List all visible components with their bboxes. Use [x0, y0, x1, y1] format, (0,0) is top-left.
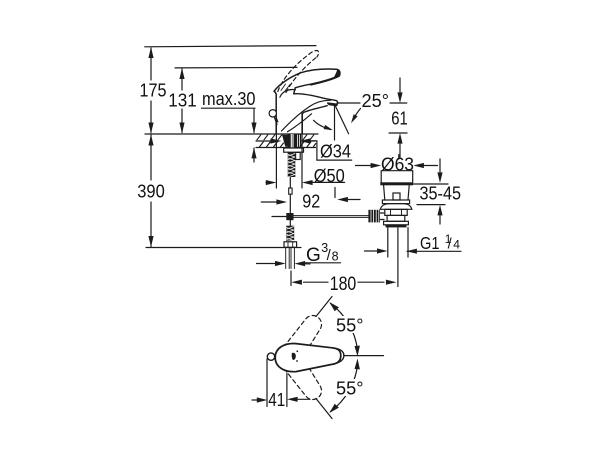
max.30 arrow down to deck [251, 123, 256, 134]
plan view: pull-rod circle [267, 353, 274, 360]
body swoosh curve 2 [288, 114, 312, 132]
25 degree arc arrow left [314, 120, 331, 129]
drain narrow section [387, 215, 405, 221]
svg-text:131: 131 [168, 89, 197, 110]
spout top edge [294, 94, 338, 104]
lever grip shading strokes [281, 84, 290, 91]
rod coupler [289, 188, 292, 194]
plan view: lever end cap outer arc [332, 348, 344, 365]
label Ø34 with leader [305, 141, 352, 160]
label 55 upper [334, 314, 365, 335]
dashed raised lever outer edge [278, 54, 309, 91]
dimension 180 line with arrows [304, 281, 385, 283]
hose connection nut [284, 242, 297, 248]
plan view: dashed lever rotated up 55 [274, 311, 327, 373]
Ø63 dimension left arrow [356, 165, 372, 167]
plan view: solid lever [275, 344, 341, 372]
threaded stud below nut [288, 152, 296, 177]
svg-text:55°: 55° [336, 314, 364, 335]
Ø50 extension line right [301, 113, 303, 188]
svg-text:/: / [448, 236, 453, 252]
svg-text:61: 61 [391, 108, 408, 129]
25 degree arc arrow right [353, 109, 361, 120]
aerator at spout tip [327, 102, 338, 106]
pop-up knob on body [269, 110, 276, 117]
dimension 41 arrows [252, 399, 257, 401]
side tube on nut [296, 152, 301, 159]
pop-up rod upper [289, 177, 291, 188]
Ø50 extension line left [275, 118, 277, 188]
svg-text:41: 41 [268, 389, 285, 410]
dimension 131 arrows [179, 68, 184, 134]
faucet shank through deck (dark threaded section) [282, 134, 301, 147]
Ø50 dimension arrows [266, 182, 270, 184]
svg-text:G1: G1 [420, 233, 440, 253]
drain locknut disc [382, 200, 409, 204]
drain head (Ø63) [381, 171, 413, 183]
svg-text:35-45: 35-45 [420, 182, 462, 203]
deck bottom line [256, 147, 316, 149]
plan view: upper dimension arc [331, 304, 358, 351]
35-45 lower arrow [439, 215, 441, 224]
drain upper body taper [384, 185, 410, 200]
deck hatching [257, 135, 316, 147]
second reference line (lever top) [175, 66, 297, 69]
35-45 upper arrow [439, 159, 441, 173]
lever tip cap shading [334, 70, 340, 78]
svg-text:175: 175 [140, 80, 167, 101]
plan view: lower dimension arc [331, 365, 358, 412]
plan view: lever mark [292, 353, 295, 359]
25 degree sloped leg (spout axis) [335, 105, 349, 134]
dimension 61 vertical line with arrows [399, 78, 401, 92]
top reference line (raised lever height) [145, 46, 316, 47]
drain centerline [397, 228, 399, 287]
max.30 lower arrow up to deck bottom [253, 148, 255, 162]
label G1 1/4 with underline [407, 232, 461, 253]
dashed raised lever tip cap [309, 50, 319, 56]
dimension 175 arrows [148, 47, 153, 134]
lower threaded connector [286, 226, 294, 242]
faucet lever solid [274, 69, 340, 94]
G1 1/4 left arrow [365, 250, 378, 252]
plan view: upper 55 extension line [316, 297, 332, 317]
svg-text:Ø34: Ø34 [320, 140, 351, 161]
drain centerline upper stub [398, 155, 400, 160]
lever bottom edge emphasis [311, 76, 339, 85]
dimension 92 right arrow [348, 199, 360, 201]
svg-text:8: 8 [332, 250, 339, 264]
mounting nut below deck [284, 148, 304, 152]
svg-text:4: 4 [453, 238, 460, 252]
Ø63 dimension right arrow [424, 165, 438, 167]
svg-text:max.30: max.30 [202, 88, 256, 109]
dimension 180 left extension line [290, 271, 292, 286]
plan view: lower 55 extension line [316, 399, 332, 419]
25 degree horizontal reference line [337, 102, 407, 104]
faucet body left edge [274, 91, 276, 133]
plan view: dashed lever rotated down 55 [274, 342, 327, 404]
dimension 390 arrows [148, 135, 153, 248]
svg-text:92: 92 [302, 191, 320, 212]
G 3/8 arrow left [257, 263, 276, 265]
deck top line [145, 133, 318, 135]
spout underside and body right edge [302, 106, 327, 134]
drain gasket (black) [380, 182, 413, 185]
drain lift knob [393, 193, 400, 200]
faucet clamping arrow right [310, 140, 316, 142]
svg-text:55°: 55° [336, 377, 364, 398]
dimension 61 lower tick (deck level) [389, 132, 407, 134]
dimension 131 vertical line [181, 69, 183, 133]
dimension 41 right extension line [286, 373, 288, 407]
knurled rod nut on drain [368, 210, 384, 223]
label G3/8 [303, 241, 340, 266]
plan view: horizontal centerline [344, 355, 384, 357]
35-45 lower tick [417, 204, 445, 206]
dashed raised lever inner edge [286, 57, 317, 93]
25 degree vertical leg from aerator [334, 105, 336, 141]
svg-text:Ø63: Ø63 [381, 154, 414, 175]
drain tailpipe [388, 228, 408, 258]
drain dome [380, 204, 412, 210]
svg-text:25°: 25° [362, 90, 390, 111]
drain hex section [385, 209, 407, 215]
horizontal pop-up linkage rod [294, 216, 369, 218]
label 55 lower [334, 377, 365, 398]
svg-text:180: 180 [330, 273, 357, 295]
pop-up rod lower [289, 194, 291, 212]
G 3/8 arrow right [305, 263, 311, 265]
dimension 92 extension tick [334, 188, 336, 198]
drain lower ring [384, 221, 409, 225]
35-45 flange tick [414, 183, 449, 185]
flexible hoses [286, 248, 295, 269]
dimension 175 vertical line [150, 48, 152, 133]
bottom reference line (hose end, 390) [146, 247, 301, 249]
G1 1/4 right arrowhead on underline [406, 249, 417, 254]
dimension 390 vertical line [150, 135, 152, 247]
dimension 41 left extension line [266, 359, 268, 407]
drain bottom plate [386, 225, 407, 228]
cartridge dome line [280, 90, 296, 98]
dimension 92 left arrow [261, 201, 276, 203]
faucet clamping arrow left [256, 140, 271, 142]
rod junction block [272, 213, 294, 226]
svg-text:390: 390 [137, 181, 165, 202]
body swoosh curve 1 [282, 100, 331, 131]
